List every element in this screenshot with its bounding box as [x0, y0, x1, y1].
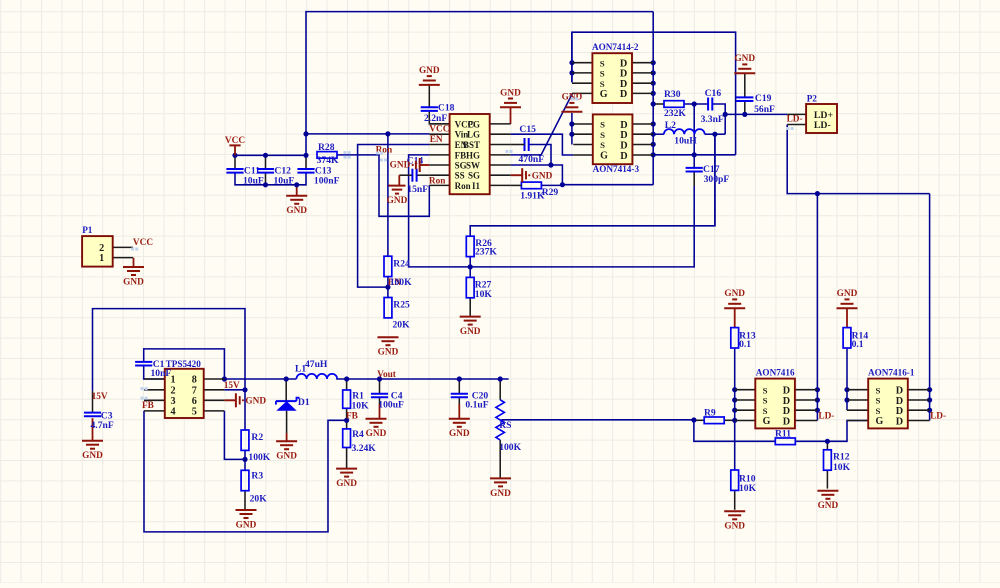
resistor R10 [731, 470, 757, 494]
svg-text:P1: P1 [82, 225, 93, 235]
wire C19 stem bottom [744, 101, 746, 114]
ground below C3 [82, 441, 103, 461]
wire C19 stem top [744, 73, 746, 97]
svg-text:Ron: Ron [429, 176, 446, 186]
wire LD- net route [787, 125, 929, 194]
svg-text:GND: GND [387, 196, 408, 206]
svg-text:47uH: 47uH [305, 359, 328, 370]
svg-text:G: G [600, 89, 608, 100]
ground above R13 [724, 289, 745, 308]
resistor R30 [664, 89, 686, 119]
svg-text:S: S [876, 396, 881, 406]
wire R26 R27 junction [469, 256, 471, 277]
wire C12 leads [265, 155, 267, 185]
svg-text:GND: GND [276, 452, 297, 462]
svg-text:G: G [763, 416, 771, 427]
svg-text:GND: GND [460, 327, 481, 337]
svg-text:S: S [763, 385, 768, 395]
svg-text:SS: SS [455, 171, 465, 181]
svg-text:100nF: 100nF [314, 175, 340, 186]
svg-text:C19: C19 [755, 93, 772, 104]
bar ground at TPS GND pin [224, 393, 266, 407]
svg-text:10K: 10K [739, 483, 757, 494]
wire gate drive low loop [694, 420, 775, 442]
wire cap bottom rail [235, 172, 306, 184]
ground below R3 [236, 510, 257, 530]
wire R3 to GND [244, 491, 246, 509]
svg-text:GND: GND [245, 397, 266, 407]
capacitor C17 [686, 164, 730, 185]
net label VCC at pin [429, 124, 449, 134]
net label 15V at VIN pin [224, 381, 240, 391]
svg-text:Vout: Vout [377, 370, 397, 380]
wire C1 bottom to pin1 [144, 367, 165, 380]
resistor R27 [466, 277, 492, 300]
ground above R14 [837, 289, 858, 308]
svg-text:GND: GND [500, 88, 521, 98]
svg-text:LD-: LD- [787, 115, 803, 125]
capacitor C3 [84, 411, 114, 431]
svg-text:2: 2 [171, 385, 176, 396]
svg-text:232K: 232K [664, 108, 686, 119]
svg-text:100uF: 100uF [378, 399, 404, 410]
svg-text:10K: 10K [833, 462, 851, 473]
wire R10 branch [734, 420, 736, 470]
svg-text:FB: FB [142, 401, 154, 411]
svg-text:R2: R2 [251, 432, 263, 443]
svg-text:R30: R30 [664, 89, 681, 100]
svg-text:374K: 374K [317, 155, 339, 166]
connector P2 [787, 94, 837, 134]
wire C16 right to L2 out [713, 104, 726, 134]
svg-text:AON7416-1: AON7416-1 [868, 367, 915, 377]
svg-text:PG: PG [468, 119, 481, 129]
svg-text:AON7416: AON7416 [756, 367, 795, 377]
ground inverted at Q2 source [561, 93, 582, 112]
svg-text:R12: R12 [833, 451, 850, 462]
transistor Q1 AON7414-2 [572, 42, 653, 103]
svg-text:2: 2 [99, 243, 104, 254]
wire LD- branch right FET [929, 194, 931, 421]
svg-text:R25: R25 [393, 300, 410, 311]
svg-text:20K: 20K [250, 494, 268, 505]
capacitor C18 [421, 103, 455, 124]
svg-text:D: D [620, 151, 627, 162]
resistor R9 [704, 407, 724, 423]
svg-text:0.1: 0.1 [739, 339, 751, 350]
svg-text:5: 5 [192, 407, 197, 418]
net label Vout [377, 370, 397, 380]
resistor R25 [384, 298, 410, 331]
svg-text:S: S [600, 130, 605, 140]
svg-text:SG: SG [455, 160, 467, 170]
svg-text:0.1: 0.1 [852, 339, 864, 350]
resistor R1 [343, 390, 369, 412]
inductor L1 [295, 359, 337, 379]
wire VCC rail to Vin pin [306, 133, 429, 135]
wire R14 top [846, 308, 848, 327]
svg-text:GND: GND [366, 429, 387, 439]
ground below R27 [460, 317, 481, 337]
svg-text:10uF: 10uF [243, 175, 264, 186]
svg-text:7: 7 [192, 385, 197, 396]
wire C14 right [417, 174, 430, 176]
wire R4 bottom [346, 448, 348, 469]
svg-text:3.24K: 3.24K [352, 443, 377, 454]
svg-text:20K: 20K [393, 320, 411, 331]
svg-text:R4: R4 [352, 429, 364, 440]
wire ENA route [224, 411, 245, 460]
wire C18 bottom to VCC pin [429, 112, 449, 124]
svg-text:C15: C15 [519, 124, 536, 135]
wire R1 leads [346, 379, 348, 429]
svg-text:S: S [763, 396, 768, 406]
svg-text:GND: GND [390, 161, 411, 171]
wire BST C15 right drop [529, 145, 551, 166]
capacitor C13 [297, 165, 339, 186]
svg-text:10uF: 10uF [274, 175, 295, 186]
net label LD- left FET [818, 411, 834, 421]
svg-text:R24: R24 [393, 258, 410, 269]
wire D1 top lead [285, 379, 287, 401]
capacitor C1 [135, 359, 171, 379]
wire C11 leads [234, 155, 236, 169]
svg-text:15V: 15V [92, 392, 108, 402]
svg-text:100K: 100K [248, 452, 270, 463]
wire R24 top to VCC rail [387, 134, 389, 256]
svg-text:237K: 237K [475, 247, 497, 258]
ground below D1 [276, 441, 297, 461]
svg-text:LD-: LD- [818, 411, 834, 421]
net label Ron right [429, 176, 446, 186]
power port VCC main rail [225, 136, 245, 156]
svg-text:15nF: 15nF [407, 184, 428, 195]
wire 15V loop [93, 309, 246, 430]
wire VIN pin7 to 15V rail [224, 389, 245, 391]
svg-text:300pF: 300pF [704, 174, 730, 185]
bar ground at R29 [511, 168, 553, 182]
net label 15V left [92, 392, 108, 402]
svg-text:VCC: VCC [225, 136, 245, 146]
svg-text:L2: L2 [665, 120, 676, 131]
wire R11 right to right gate [795, 421, 868, 442]
resistor R29 [511, 182, 559, 202]
svg-text:S: S [600, 69, 605, 79]
resistor R12 [824, 450, 851, 473]
svg-text:S: S [600, 140, 605, 150]
wire RS sense to R9 [502, 419, 694, 421]
net label VCC at P1 [133, 238, 153, 248]
svg-text:GND: GND [724, 289, 745, 299]
wire VIN top loop [306, 12, 653, 156]
svg-text:470nF: 470nF [519, 154, 545, 165]
capacitor C15 [511, 124, 545, 165]
wire PG gnd stem [510, 107, 512, 124]
svg-text:GND: GND [378, 348, 399, 358]
wire Ron net R28 route [337, 155, 430, 216]
svg-text:S: S [876, 385, 881, 395]
wire cap top rail [235, 154, 306, 156]
wire low FET source gnd bus [571, 113, 573, 145]
svg-text:GND: GND [837, 289, 858, 299]
svg-text:D1: D1 [298, 397, 310, 408]
wire R26 top to L2 out [470, 134, 715, 236]
capacitor C12 [257, 165, 295, 186]
svg-text:GND: GND [82, 451, 103, 461]
wire RS leads [499, 379, 501, 478]
resistor R24 [384, 256, 412, 288]
resistor R4 [343, 429, 377, 454]
svg-text:VCC: VCC [429, 124, 449, 134]
svg-text:10K: 10K [352, 401, 370, 412]
resistor RS [496, 400, 522, 453]
wire SW drain bus [652, 12, 654, 185]
wire FB net to divider [409, 155, 695, 267]
op-amp U1 regulator IC [429, 114, 510, 194]
svg-text:10K: 10K [475, 289, 493, 300]
wire I1 R29 node [541, 184, 562, 186]
ground below C20 [449, 419, 470, 439]
wire C4 leads [379, 379, 381, 419]
wire FB bottom loop [144, 411, 347, 532]
svg-text:6: 6 [192, 396, 197, 407]
net label FB at pin4 [142, 401, 154, 411]
wire SW row to C17 [653, 154, 735, 156]
wire GND stem caps [296, 185, 298, 196]
svg-text:P2: P2 [807, 94, 818, 104]
svg-text:100K: 100K [499, 442, 521, 453]
ground below R4 [336, 469, 357, 489]
connector P1 [82, 225, 133, 266]
svg-text:S: S [763, 406, 768, 416]
svg-text:HG: HG [466, 150, 480, 160]
resistor R11 [775, 428, 795, 444]
svg-text:LG: LG [467, 130, 480, 140]
capacitor C20 [451, 391, 489, 411]
svg-text:15V: 15V [224, 381, 240, 391]
wire D1 bottom lead [286, 411, 288, 441]
ground above C18 [419, 66, 440, 85]
wire Vout rail [336, 378, 508, 380]
svg-text:AON7414-3: AON7414-3 [593, 164, 640, 174]
ground below C4 [366, 419, 387, 439]
svg-text:D: D [620, 140, 627, 151]
wire R27 to GND [469, 298, 471, 317]
transistor Q3 AON7416 [735, 367, 818, 428]
svg-text:GND: GND [818, 501, 839, 511]
wire R9 leads [694, 419, 735, 421]
svg-text:R28: R28 [318, 142, 335, 153]
wire node SW-R30-C17 vertical [693, 104, 695, 168]
svg-text:LD-: LD- [814, 120, 831, 131]
wire SW upper rail [572, 32, 736, 155]
svg-text:R11: R11 [775, 428, 791, 439]
net label EN at pin [430, 135, 443, 145]
svg-text:BST: BST [463, 140, 480, 150]
wire LD- branch left FET [816, 194, 818, 421]
ground below RS [490, 478, 511, 498]
wire R13 bus [734, 349, 736, 421]
svg-text:LD-: LD- [930, 412, 946, 422]
svg-text:RS: RS [499, 420, 511, 431]
svg-text:R3: R3 [251, 470, 263, 481]
svg-text:FB: FB [455, 150, 467, 160]
op-amp U2 TPS5430 buck [144, 359, 224, 418]
svg-text:4.7nF: 4.7nF [91, 420, 114, 431]
capacitor C11 [226, 165, 264, 186]
resistor R13 [731, 328, 756, 350]
svg-text:SG: SG [468, 171, 480, 181]
svg-text:GND: GND [286, 206, 307, 216]
wire C1 boot loop [144, 349, 225, 379]
svg-text:G: G [600, 151, 608, 162]
svg-text:56nF: 56nF [754, 104, 775, 115]
ground below R25 [378, 337, 399, 357]
svg-text:3.3nF: 3.3nF [701, 114, 724, 125]
svg-text:GND: GND [123, 277, 144, 287]
resistor R26 [466, 236, 497, 257]
svg-text:1.91K: 1.91K [520, 191, 545, 202]
svg-text:D: D [620, 89, 627, 100]
ground below R10 [724, 511, 745, 531]
wire C20 leads [458, 379, 460, 419]
capacitor C4 [371, 391, 404, 411]
svg-text:GND: GND [419, 66, 440, 76]
ground below P1 pin1 [123, 267, 144, 287]
wire HG diagonal to high gate [541, 94, 572, 156]
svg-text:4: 4 [171, 407, 176, 418]
wire R12 bottom [826, 470, 828, 488]
wire R30 left [653, 103, 664, 105]
capacitor C16 [701, 88, 724, 125]
ground below C14 [387, 186, 408, 206]
ground below R12 [817, 491, 838, 511]
wire EN net [358, 145, 430, 288]
svg-text:GND: GND [734, 54, 755, 64]
net label LD- at P2 [787, 115, 803, 125]
resistor R14 [843, 328, 868, 350]
capacitor C19 [736, 93, 775, 115]
svg-text:VCC: VCC [133, 238, 153, 248]
svg-text:GND: GND [532, 172, 553, 182]
svg-text:I1: I1 [472, 181, 481, 191]
wire LG to low gate [511, 134, 574, 155]
svg-text:2.2nF: 2.2nF [424, 113, 447, 124]
wire C3 top lead [92, 391, 94, 413]
svg-text:3: 3 [171, 396, 176, 407]
svg-text:S: S [600, 79, 605, 89]
net label LD- right FET [930, 412, 946, 422]
svg-text:10uH: 10uH [674, 135, 697, 146]
net label Ron left [376, 146, 393, 156]
svg-text:G: G [876, 416, 884, 427]
wire C14 left to GND [399, 175, 412, 185]
svg-text:GND: GND [490, 489, 511, 499]
svg-text:R9: R9 [704, 407, 716, 418]
wire C18 top [428, 85, 430, 107]
svg-text:GND: GND [336, 479, 357, 489]
wire LD+ net [725, 113, 787, 115]
ground at PG pin [500, 88, 521, 107]
wire C13 leads [305, 155, 307, 169]
wire SW bus to I1 node [562, 184, 653, 186]
resistor R3 [241, 470, 267, 504]
wire L2 out down to R26 wire [714, 134, 716, 226]
svg-text:C16: C16 [705, 88, 722, 99]
wire P1 pin1 gnd [133, 258, 135, 267]
wire R10 bottom [734, 491, 736, 510]
svg-text:D: D [783, 416, 790, 427]
svg-text:10nF: 10nF [151, 368, 172, 379]
resistor R28 [317, 142, 339, 166]
wire R14 bus [846, 349, 848, 410]
diode D1 schottky [276, 397, 310, 411]
wire PH rail [224, 378, 296, 380]
wire L2 leads [653, 133, 725, 135]
bar ground at SG pin [390, 158, 430, 172]
net label FB at divider [346, 412, 358, 422]
svg-text:GND: GND [449, 429, 470, 439]
wire R13 top [734, 308, 736, 327]
inductor L2 [664, 120, 705, 146]
svg-text:S: S [600, 58, 605, 68]
wire C17 bottom lead [693, 172, 695, 186]
svg-text:8: 8 [192, 375, 197, 386]
wire R12 top [826, 441, 828, 450]
svg-text:GND: GND [724, 522, 745, 532]
svg-text:Ron: Ron [455, 181, 471, 191]
net label EN at divider [388, 278, 401, 288]
transistor Q4 AON7416-1 [847, 367, 930, 428]
capacitor C14 [407, 155, 429, 195]
svg-text:EN: EN [430, 135, 443, 145]
wire C3 bottom lead [92, 418, 94, 440]
wire SW pin row [511, 165, 563, 185]
svg-text:100K: 100K [390, 277, 412, 288]
svg-text:D: D [896, 416, 903, 427]
svg-text:0.1uF: 0.1uF [465, 399, 488, 410]
svg-text:S: S [600, 120, 605, 130]
wire R30 right C16 left [684, 103, 708, 105]
svg-text:AON7414-2: AON7414-2 [592, 42, 639, 52]
resistor R2 [241, 430, 271, 463]
wire high FET source bus [571, 32, 573, 82]
svg-text:S: S [876, 406, 881, 416]
svg-text:SW: SW [466, 160, 480, 170]
wire HG stub run [511, 154, 541, 156]
svg-text:1: 1 [99, 253, 104, 264]
svg-text:FB: FB [346, 412, 358, 422]
wire R2 R3 junction [244, 450, 246, 470]
wire R24 R25 junction [387, 277, 389, 298]
ground below caps [286, 196, 307, 216]
ground above C19 [734, 54, 755, 73]
svg-text:GND: GND [236, 520, 257, 530]
transistor Q2 AON7414-3 [573, 114, 653, 173]
